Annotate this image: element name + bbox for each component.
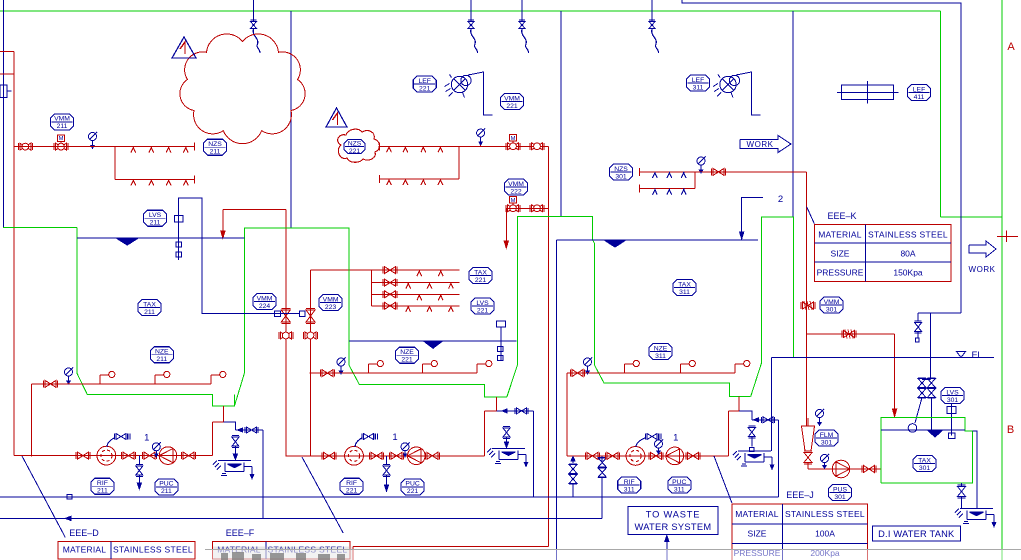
valve t3 v4 — [688, 452, 699, 459]
wire DI drop — [930, 313, 932, 379]
valve t1 vent — [116, 434, 126, 440]
svg-text:LEF: LEF — [913, 86, 925, 93]
label LEF 221 — [413, 76, 436, 92]
tank3 hook line — [567, 372, 735, 374]
valve globe VMM222 — [532, 205, 543, 212]
warning triangle 1 — [172, 37, 196, 58]
valve below rotameter — [804, 453, 812, 463]
lamp LEF311 — [720, 76, 736, 92]
svg-text:221: 221 — [349, 148, 361, 155]
tank1 drain branch — [223, 422, 235, 430]
svg-text:221: 221 — [407, 488, 419, 495]
valve t3 vent — [647, 434, 657, 440]
pump PUC311 a — [626, 447, 645, 466]
svg-text:TAX: TAX — [678, 281, 691, 288]
svg-text:M: M — [511, 136, 516, 142]
svg-text:MATERIAL: MATERIAL — [818, 229, 862, 239]
wire DI pump line — [807, 463, 809, 470]
wire transfer B — [310, 270, 312, 456]
svg-text:1: 1 — [144, 433, 149, 444]
valve t2 v4 — [427, 452, 438, 459]
svg-text:311: 311 — [674, 486, 685, 493]
instrument tank2 level — [496, 321, 505, 327]
tank2 water — [349, 340, 517, 342]
svg-text:221: 221 — [506, 103, 518, 110]
valve hg VMM223 — [306, 310, 315, 322]
svg-text:301: 301 — [821, 439, 833, 446]
svg-text:TAX: TAX — [143, 301, 156, 308]
valve t2 v2 — [371, 452, 382, 459]
svg-text:WORK: WORK — [747, 140, 774, 149]
valve hg VMM224 — [281, 310, 290, 322]
funnel tank1 — [218, 460, 251, 462]
cloud — [180, 34, 305, 144]
wire tank2 spray row2 — [458, 146, 460, 179]
leader EEE-J — [714, 456, 732, 503]
valve tank1 drain hg — [232, 437, 239, 446]
svg-text:LEF: LEF — [418, 78, 430, 85]
wire tank1 spray feed — [14, 146, 194, 148]
valve globe A2 — [280, 332, 291, 339]
funnel tank2 — [492, 447, 525, 449]
label PUS 301 — [829, 485, 852, 501]
wire DI fill — [807, 333, 895, 335]
svg-text:223: 223 — [325, 304, 337, 311]
label VMM 301 — [820, 297, 843, 313]
svg-text:211: 211 — [210, 149, 221, 156]
svg-text:221: 221 — [477, 307, 489, 314]
gauge tank1 hookline — [65, 368, 73, 376]
tank3 outlet — [738, 397, 740, 412]
svg-text:RIF: RIF — [346, 480, 357, 487]
svg-text:RIF: RIF — [624, 479, 635, 486]
label NZE 311 — [649, 344, 672, 360]
svg-text:222: 222 — [510, 188, 522, 195]
svg-text:301: 301 — [919, 465, 931, 472]
leader EEE-D — [22, 456, 65, 537]
valve left globe — [20, 143, 31, 150]
wire tank3 pump line — [567, 455, 728, 457]
wire manifold row4 — [372, 305, 460, 307]
svg-text:VMM: VMM — [508, 181, 524, 188]
wire manifold row3 — [372, 293, 460, 295]
wire red drop x548 — [548, 146, 550, 546]
svg-text:NZS: NZS — [348, 140, 362, 147]
label RIF 221 — [340, 478, 363, 494]
label VMM 221 — [501, 94, 524, 110]
label TAX 301 — [913, 456, 936, 472]
svg-text:EEE–K: EEE–K — [827, 211, 856, 221]
svg-text:301: 301 — [615, 173, 627, 180]
gauge tank2 hookline — [337, 358, 345, 366]
DI overflow — [972, 431, 977, 509]
rotameter FLM301 — [802, 426, 815, 451]
svg-text:221: 221 — [419, 85, 431, 92]
valve tank1 hookline — [45, 380, 56, 387]
svg-text:NZE: NZE — [155, 349, 169, 356]
gauge t2 — [401, 443, 409, 451]
table EEE-D — [58, 542, 195, 560]
svg-text:WORK: WORK — [969, 265, 996, 274]
tank2 outlet — [495, 397, 497, 411]
work arrow top — [740, 136, 791, 153]
svg-text:150Kpa: 150Kpa — [893, 268, 923, 278]
svg-text:TAX: TAX — [918, 457, 931, 464]
valve globe B2 — [305, 332, 316, 339]
label LEF 411 — [908, 85, 931, 101]
drop valve d — [651, 0, 653, 21]
wire blue top right — [682, 0, 961, 313]
pump PUS301 — [832, 460, 850, 478]
label PUC 221 — [401, 479, 424, 495]
valve t2 v3 — [391, 452, 402, 459]
wire drain line2 — [0, 517, 602, 519]
valve tank3 hookline — [572, 370, 583, 377]
filter LEF411 — [841, 85, 893, 99]
svg-text:SIZE: SIZE — [748, 529, 767, 539]
wire red bottom L — [353, 546, 549, 548]
wire tank2 spray row1 — [379, 145, 548, 147]
svg-text:311: 311 — [624, 486, 635, 493]
instrument LVS211 — [179, 198, 300, 313]
drain t1 — [138, 456, 140, 465]
svg-text:FLM: FLM — [820, 432, 834, 439]
svg-text:A: A — [1007, 41, 1015, 53]
table EEE-K — [814, 225, 950, 282]
svg-text:EEE–F: EEE–F — [226, 528, 255, 538]
wire manifold row1 — [372, 269, 460, 271]
gauge tank3 hookline — [584, 358, 592, 366]
valve manifold row1 — [385, 267, 396, 274]
gauge t1 — [152, 443, 160, 451]
svg-text:311: 311 — [679, 289, 690, 296]
svg-text:NZE: NZE — [400, 349, 414, 356]
node left instrument — [0, 85, 7, 97]
tank3 wall right — [751, 217, 794, 397]
sprinklers tank1 row2 — [131, 180, 136, 185]
label NZS 301 — [610, 164, 633, 180]
sprinklers mrow1 — [417, 271, 422, 276]
wire drain line1 — [0, 496, 779, 498]
drop valve a — [253, 0, 255, 21]
svg-text:MATERIAL: MATERIAL — [735, 509, 779, 519]
svg-text:211: 211 — [57, 123, 68, 130]
label RIF 211 — [91, 478, 114, 494]
label NZS 211 — [204, 139, 227, 155]
label LVS 221 — [471, 298, 494, 314]
valve VMM301 — [803, 302, 814, 309]
FL line — [771, 357, 994, 359]
label NZE 221 — [396, 347, 419, 363]
label LVS 301 — [941, 388, 964, 404]
svg-text:VMM: VMM — [54, 116, 70, 123]
node line1 square — [67, 495, 72, 500]
wire green shelf — [941, 216, 1003, 218]
valve t3 v1 — [587, 452, 598, 459]
match marker — [997, 235, 1018, 237]
svg-text:TAX: TAX — [474, 269, 487, 276]
instrument LVS301 — [947, 407, 956, 414]
label LVS 211 — [144, 210, 167, 226]
svg-text:M: M — [511, 198, 516, 204]
valve t2 vent — [364, 434, 374, 440]
sprinklers nzs301 r2 — [653, 190, 658, 195]
tank2 drain branch — [496, 410, 533, 412]
wire blue left border — [2, 0, 4, 228]
tank1 outlet — [222, 406, 224, 422]
node line2 arrow — [65, 516, 71, 520]
lamp LEF221 — [451, 76, 467, 92]
svg-text:VMM: VMM — [504, 95, 520, 102]
svg-text:211: 211 — [150, 220, 161, 227]
wire dip x556 — [556, 240, 558, 560]
svg-text:WATER SYSTEM: WATER SYSTEM — [635, 522, 712, 532]
gauge nzs301 — [697, 157, 705, 165]
gauge rotameter — [816, 410, 824, 418]
svg-text:301: 301 — [834, 494, 846, 501]
svg-text:FL: FL — [971, 350, 982, 361]
label DI water tank — [872, 526, 960, 541]
arrow to waste — [666, 540, 668, 560]
svg-text:211: 211 — [161, 488, 172, 495]
drain t3 b — [601, 456, 603, 461]
label RIF 311 — [618, 477, 641, 493]
svg-text:211: 211 — [97, 488, 108, 495]
wire transfer A — [285, 209, 287, 456]
valve DI pump — [864, 466, 875, 473]
DI water — [881, 429, 965, 431]
valve manifold row2 — [385, 279, 396, 286]
window edge fade — [205, 550, 1021, 560]
svg-text:411: 411 — [914, 94, 925, 101]
svg-text:100A: 100A — [815, 529, 835, 539]
wire manifold row2 — [372, 282, 460, 284]
tank1 water — [77, 237, 244, 239]
hooks tank2 — [368, 364, 370, 373]
label LEF 311 — [687, 75, 710, 91]
valve t3 v3 — [651, 452, 662, 459]
label PUC 311 — [668, 477, 691, 493]
wire drain x771 — [770, 358, 772, 452]
valve t1 v4 — [183, 452, 194, 459]
svg-text:211: 211 — [144, 309, 155, 316]
svg-text:STAINLESS STEEL: STAINLESS STEEL — [785, 509, 865, 519]
label VMM 223 — [319, 295, 342, 311]
wire tank1 fill — [223, 208, 286, 210]
valve manifold row4 — [385, 302, 396, 309]
wire tank2 pump line — [286, 455, 485, 457]
sprinklers tank2 row1 — [387, 147, 392, 152]
label NZS 221 cloud — [338, 129, 380, 162]
svg-text:TO WASTE: TO WASTE — [646, 510, 700, 520]
label TAX 221 — [469, 268, 492, 284]
tank2 wall right — [507, 217, 751, 397]
leader EEE-K — [807, 207, 815, 224]
valve t1 v3 — [144, 452, 155, 459]
svg-text:B: B — [1007, 424, 1014, 436]
sprinklers mrow2 — [406, 284, 411, 289]
label VMM 222 — [505, 179, 528, 195]
sprinklers mrow4 — [406, 307, 411, 312]
svg-text:2: 2 — [778, 194, 783, 205]
leader EEE-F — [302, 457, 343, 533]
label FLM 301 — [815, 430, 838, 446]
valve t3 v2 — [607, 452, 618, 459]
label TAX 311 — [673, 280, 696, 296]
wire long vertical x793 — [792, 11, 794, 217]
gauge t3 — [655, 440, 663, 448]
pump PUC311 b — [666, 447, 684, 465]
valve M VMM222 — [509, 197, 516, 203]
svg-text:VMM: VMM — [824, 299, 840, 306]
svg-text:PUC: PUC — [672, 479, 686, 486]
svg-text:1: 1 — [392, 432, 397, 443]
gauge DI pump — [821, 455, 829, 463]
svg-text:PUS: PUS — [833, 486, 847, 493]
wire nzs301 row2 — [694, 172, 696, 189]
pump PUC221 b — [408, 447, 426, 465]
tank1 wall right — [235, 228, 507, 406]
pump PUC211 b — [159, 447, 177, 465]
svg-text:STAINLESS STEEL: STAINLESS STEEL — [113, 545, 193, 555]
valve manifold row3 — [385, 291, 396, 298]
table EEE-J — [732, 504, 868, 560]
hooks tank1 — [99, 375, 101, 384]
svg-text:311: 311 — [693, 84, 704, 91]
label NZE 211 — [150, 347, 173, 363]
wire VMM222 branch — [506, 207, 548, 209]
label VMM 211 — [51, 114, 74, 130]
valve t1 v2 — [123, 452, 134, 459]
label VMM 224 — [253, 294, 276, 310]
pump PUC221 a — [345, 446, 364, 465]
svg-text:221: 221 — [475, 277, 487, 284]
svg-text:EEE–J: EEE–J — [786, 490, 814, 500]
tank3 drain branch — [739, 411, 752, 420]
work arrow right — [969, 241, 996, 257]
gauge 1 — [89, 133, 97, 141]
valve nzs301 — [713, 168, 724, 175]
tank3 water — [557, 239, 758, 241]
funnel DI — [960, 508, 993, 510]
wire tank1 spray row2 — [114, 147, 116, 180]
svg-text:D.I WATER TANK: D.I WATER TANK — [878, 529, 955, 539]
drop valve c — [521, 0, 523, 21]
wire red drop x806 — [806, 172, 808, 426]
svg-text:221: 221 — [401, 357, 413, 364]
wire tank1 pump line — [14, 455, 213, 457]
svg-text:NZS: NZS — [614, 166, 628, 173]
valve globe tank2 fill — [532, 143, 543, 150]
arrow into tank2 wall — [504, 241, 508, 248]
svg-text:VMM: VMM — [257, 295, 273, 302]
svg-text:VMM: VMM — [323, 296, 339, 303]
valve t2 v1 — [324, 452, 335, 459]
valves DI double — [922, 378, 931, 380]
svg-text:PUC: PUC — [159, 481, 173, 488]
valve tank2 drain hg — [506, 411, 508, 427]
svg-text:EEE–D: EEE–D — [69, 528, 99, 538]
svg-text:LVS: LVS — [946, 389, 959, 396]
svg-text:80A: 80A — [900, 248, 915, 258]
svg-text:SIZE: SIZE — [831, 248, 850, 258]
svg-text:NZE: NZE — [654, 345, 668, 352]
wire DI to tank — [930, 398, 932, 431]
funnel tank3 — [738, 450, 771, 452]
svg-text:STAINLESS STEEL: STAINLESS STEEL — [868, 229, 948, 239]
drain t2 — [386, 456, 388, 465]
svg-text:1: 1 — [673, 433, 678, 444]
arrow into tank1 — [221, 231, 225, 238]
hooks tank3 — [624, 364, 626, 373]
wire manifold header — [311, 269, 372, 271]
grey taskbar block — [213, 547, 352, 560]
DI bottom drain — [961, 483, 963, 486]
svg-text:224: 224 — [259, 303, 271, 310]
valve M tank2 fill — [509, 135, 516, 141]
valve DI fill — [844, 331, 855, 338]
svg-text:NZS: NZS — [208, 141, 222, 148]
valve VMM211 M-valve — [57, 135, 64, 141]
table EEE-F — [213, 542, 350, 560]
vent stub — [917, 313, 919, 321]
valve tank3 drain hg — [748, 428, 755, 437]
tank1 wall left — [3, 227, 77, 229]
pump PUC211 a — [97, 446, 116, 465]
wire DI top feed — [918, 312, 961, 314]
drain t3 a — [572, 456, 574, 463]
wire long vertical x291 — [290, 11, 292, 228]
svg-text:MATERIAL: MATERIAL — [63, 545, 107, 555]
svg-text:LVS: LVS — [149, 212, 162, 219]
warning triangle 2 — [326, 108, 347, 127]
drop valve b — [470, 0, 472, 21]
svg-text:211: 211 — [156, 356, 167, 363]
wire green right drop — [940, 11, 942, 217]
sprinklers mrow3 — [417, 295, 422, 300]
wire nzs301 row1 — [639, 171, 806, 173]
svg-text:PUC: PUC — [405, 481, 419, 488]
sprinklers tank1 row1 — [131, 148, 136, 153]
svg-text:301: 301 — [947, 397, 959, 404]
wire green right border — [1001, 0, 1003, 560]
svg-text:LVS: LVS — [476, 300, 489, 307]
sprinklers tank2 row2 — [387, 180, 392, 185]
tank2 hook line — [310, 372, 478, 374]
svg-text:RIF: RIF — [97, 480, 108, 487]
wire red riser left — [0, 51, 14, 53]
svg-text:PRESSURE: PRESSURE — [817, 268, 864, 278]
valve t1 v1 — [78, 452, 89, 459]
svg-text:301: 301 — [826, 306, 838, 313]
arrow DI fill — [893, 409, 897, 417]
pointer 2 — [742, 198, 763, 233]
svg-text:M: M — [59, 136, 64, 142]
svg-text:221: 221 — [346, 488, 358, 495]
svg-text:LEF: LEF — [692, 77, 704, 84]
gauge 2 — [477, 129, 485, 137]
sprinklers nzs301 r1 — [653, 173, 658, 178]
wire long vertical x561 — [560, 11, 562, 217]
valve tank2 hookline — [322, 370, 333, 377]
tank1 hook line — [32, 383, 212, 385]
spray ball DI — [908, 424, 917, 433]
tank DI — [881, 418, 972, 483]
svg-text:311: 311 — [655, 353, 666, 360]
label TAX 211 — [138, 300, 161, 316]
box to waste — [628, 506, 718, 534]
wire green header — [0, 10, 941, 12]
